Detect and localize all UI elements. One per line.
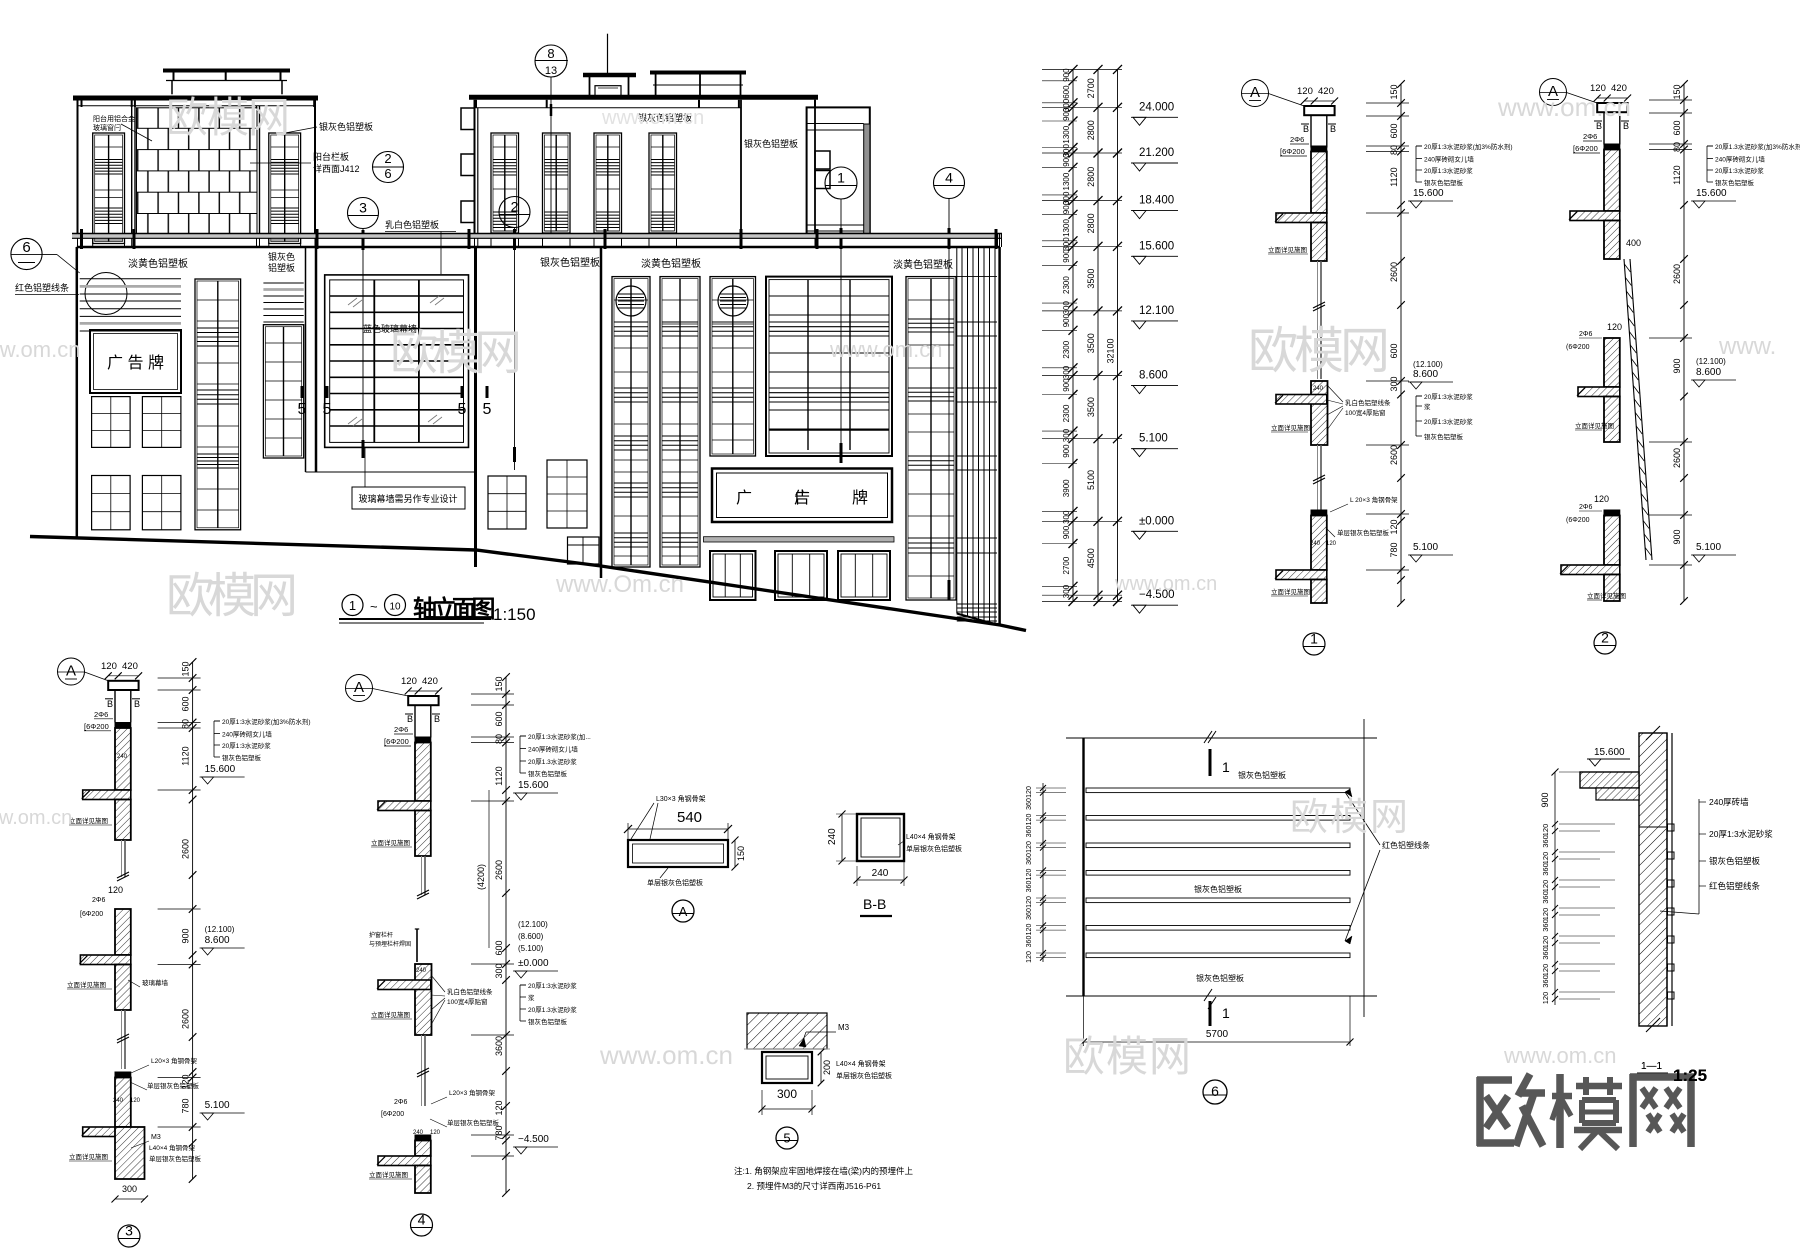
svg-text:1300: 1300 — [1062, 219, 1071, 237]
svg-text:[6Φ200: [6Φ200 — [1280, 147, 1305, 156]
svg-text:120: 120 — [1594, 494, 1609, 504]
svg-text:400: 400 — [1626, 238, 1641, 248]
svg-text:红色铝塑线条: 红色铝塑线条 — [1709, 881, 1761, 891]
svg-text:120: 120 — [430, 1130, 441, 1136]
svg-text:广 告 牌: 广 告 牌 — [107, 354, 164, 372]
svg-text:(6Φ200: (6Φ200 — [1566, 517, 1590, 524]
svg-text:网: 网 — [1149, 1033, 1191, 1080]
svg-text:300: 300 — [1062, 428, 1071, 442]
svg-text:www.: www. — [1718, 333, 1776, 360]
svg-text:120: 120 — [1026, 924, 1033, 936]
svg-text:(5.100): (5.100) — [518, 944, 544, 953]
svg-text:420: 420 — [422, 676, 438, 687]
svg-text:100宽4厚贴窗: 100宽4厚贴窗 — [1345, 408, 1385, 417]
svg-text:2600: 2600 — [181, 1009, 191, 1029]
svg-text:L 20×3 角钢骨架: L 20×3 角钢骨架 — [1350, 495, 1398, 504]
svg-text:立面详见施图: 立面详见施图 — [371, 838, 410, 847]
svg-text:600: 600 — [494, 940, 504, 955]
svg-text:100宽4厚贴窗: 100宽4厚贴窗 — [447, 997, 487, 1006]
svg-text:120: 120 — [1026, 814, 1033, 826]
svg-text:www.om.cn: www.om.cn — [599, 1040, 733, 1070]
svg-text:与预埋栏杆焊固: 与预埋栏杆焊固 — [369, 940, 411, 948]
svg-text:20厚1:3水泥砂浆: 20厚1:3水泥砂浆 — [222, 741, 271, 750]
svg-text:2Φ6: 2Φ6 — [94, 710, 108, 719]
svg-text:单层银灰色铝塑板: 单层银灰色铝塑板 — [1337, 528, 1390, 537]
svg-text:银灰色铝塑板: 银灰色铝塑板 — [222, 753, 262, 762]
svg-text:20厚1.3水泥砂浆(加3%防水剂): 20厚1.3水泥砂浆(加3%防水剂) — [1715, 142, 1800, 151]
svg-text:模: 模 — [208, 570, 256, 623]
svg-text:120: 120 — [1541, 852, 1550, 865]
svg-text:360: 360 — [1541, 975, 1550, 988]
svg-text:模: 模 — [207, 94, 249, 141]
svg-text:−4.500: −4.500 — [518, 1134, 549, 1145]
svg-text:120: 120 — [1026, 896, 1033, 908]
svg-text:www.Om.cn: www.Om.cn — [555, 571, 684, 598]
svg-text:玻璃幕墙: 玻璃幕墙 — [142, 978, 169, 987]
svg-text:(4200): (4200) — [476, 864, 486, 890]
svg-text:[6Φ200: [6Φ200 — [1573, 144, 1598, 153]
svg-text:900: 900 — [1672, 529, 1682, 544]
svg-text:银灰色铝塑板: 银灰色铝塑板 — [528, 769, 568, 778]
svg-text:淡黄色铝塑板: 淡黄色铝塑板 — [641, 257, 701, 270]
svg-text:5: 5 — [458, 401, 467, 418]
svg-text:360: 360 — [1541, 919, 1550, 932]
svg-text:B: B — [1623, 121, 1629, 131]
svg-text:单层银灰色铝塑板: 单层银灰色铝塑板 — [147, 1081, 200, 1090]
svg-text:900: 900 — [1062, 378, 1071, 392]
svg-text:浆: 浆 — [528, 993, 535, 1002]
svg-text:(12.100): (12.100) — [1413, 360, 1443, 369]
svg-text:玻璃窗闩: 玻璃窗闩 — [93, 123, 121, 132]
svg-text:乳白色铝塑线条: 乳白色铝塑线条 — [1345, 398, 1391, 407]
svg-text:5100: 5100 — [1086, 470, 1096, 490]
svg-text:6: 6 — [22, 239, 30, 256]
svg-text:浆: 浆 — [1424, 402, 1431, 411]
svg-text:1: 1 — [1222, 1005, 1230, 1021]
svg-text:B-B: B-B — [863, 896, 886, 912]
svg-text:立面详见施图: 立面详见施图 — [67, 980, 106, 989]
svg-text:2600: 2600 — [1672, 448, 1682, 468]
svg-text:20厚1:3水泥砂浆(加...: 20厚1:3水泥砂浆(加... — [528, 732, 591, 741]
svg-text:(8.600): (8.600) — [518, 932, 544, 941]
svg-text:120: 120 — [108, 885, 123, 895]
svg-text:www.om.cn: www.om.cn — [1503, 1043, 1616, 1068]
svg-text:5.100: 5.100 — [1696, 542, 1721, 553]
svg-text:120: 120 — [1541, 880, 1550, 893]
svg-text:2: 2 — [1601, 630, 1609, 646]
svg-text:银灰色铝塑板: 银灰色铝塑板 — [1424, 178, 1464, 187]
svg-text:护窗栏杆: 护窗栏杆 — [369, 931, 393, 939]
svg-text:网: 网 — [250, 570, 298, 623]
svg-text:(12.100): (12.100) — [205, 925, 235, 934]
svg-text:15.600: 15.600 — [1139, 240, 1174, 252]
svg-text:120: 120 — [1541, 992, 1550, 1005]
svg-text:900: 900 — [1062, 444, 1071, 458]
svg-text:2300: 2300 — [1062, 276, 1071, 294]
svg-text:5700: 5700 — [1206, 1029, 1229, 1040]
svg-text:L20×3 角钢骨架: L20×3 角钢骨架 — [151, 1056, 198, 1065]
svg-text:2600: 2600 — [1672, 264, 1682, 284]
svg-text:www.om.cn: www.om.cn — [1497, 92, 1631, 122]
svg-text:20厚1.3水泥砂浆: 20厚1.3水泥砂浆 — [528, 757, 577, 766]
svg-text:L40×4 角钢骨架: L40×4 角钢骨架 — [906, 832, 956, 841]
svg-text:8.600: 8.600 — [1696, 367, 1721, 378]
svg-text:2300: 2300 — [1062, 404, 1071, 422]
svg-text:~: ~ — [370, 599, 378, 614]
svg-text:5.100: 5.100 — [205, 1100, 230, 1111]
svg-text:1300: 1300 — [1062, 172, 1071, 190]
svg-text:银灰色铝塑板: 银灰色铝塑板 — [540, 256, 600, 269]
svg-text:2: 2 — [511, 199, 519, 215]
svg-text:2600: 2600 — [1389, 445, 1399, 465]
svg-text:5.100: 5.100 — [1139, 433, 1168, 445]
svg-text:银灰色铝塑板: 银灰色铝塑板 — [744, 138, 798, 149]
svg-text:2600: 2600 — [1389, 262, 1399, 282]
svg-text:10: 10 — [389, 602, 401, 613]
svg-text:600: 600 — [494, 711, 504, 726]
svg-text:2700: 2700 — [1086, 78, 1096, 98]
svg-text:网: 网 — [474, 327, 522, 380]
svg-text:3: 3 — [359, 200, 367, 216]
svg-text:www.om.cn: www.om.cn — [0, 337, 80, 362]
svg-text:立面详见施图: 立面详见施图 — [369, 1170, 408, 1179]
svg-text:2600: 2600 — [181, 839, 191, 859]
svg-text:2300: 2300 — [1062, 340, 1071, 358]
svg-text:8.600: 8.600 — [205, 935, 230, 946]
svg-text:900: 900 — [1540, 792, 1550, 807]
svg-text:20厚1.3水泥砂浆: 20厚1.3水泥砂浆 — [528, 1005, 577, 1014]
svg-text:80: 80 — [1389, 145, 1399, 155]
svg-text:2Φ6: 2Φ6 — [1583, 132, 1597, 141]
svg-text:立面详见施图: 立面详见施图 — [1575, 421, 1614, 430]
svg-text:150: 150 — [181, 661, 191, 676]
svg-text:900: 900 — [1062, 153, 1071, 167]
svg-text:网: 网 — [248, 94, 290, 141]
svg-text:2Φ6: 2Φ6 — [1579, 504, 1592, 511]
svg-text:1: 1 — [1222, 759, 1230, 775]
svg-text:420: 420 — [122, 661, 138, 672]
svg-text:2Φ6: 2Φ6 — [394, 1099, 407, 1106]
svg-text:www.om.cn: www.om.cn — [0, 807, 72, 829]
svg-text:1: 1 — [349, 598, 356, 613]
svg-text:150: 150 — [736, 846, 746, 861]
svg-text:4: 4 — [418, 1212, 426, 1228]
svg-text:120: 120 — [494, 1100, 504, 1115]
svg-text:告: 告 — [794, 489, 810, 507]
svg-text:360: 360 — [1026, 936, 1033, 948]
svg-text:立面详见施图: 立面详见施图 — [1271, 423, 1310, 432]
svg-text:1: 1 — [837, 170, 845, 186]
svg-text:120: 120 — [101, 661, 117, 672]
svg-text:2800: 2800 — [1086, 120, 1096, 140]
svg-text:360: 360 — [1541, 863, 1550, 876]
svg-text:780: 780 — [1389, 542, 1399, 557]
svg-text:900: 900 — [1062, 313, 1071, 327]
svg-text:2. 预埋件M3的尺寸详西南J516-P61: 2. 预埋件M3的尺寸详西南J516-P61 — [747, 1181, 881, 1191]
svg-text:8.600: 8.600 — [1139, 370, 1168, 382]
svg-text:B: B — [1596, 121, 1602, 131]
svg-text:3500: 3500 — [1086, 397, 1096, 417]
svg-text:[6Φ200: [6Φ200 — [381, 1111, 404, 1118]
svg-text:120: 120 — [1607, 322, 1622, 332]
svg-text:1120: 1120 — [1389, 167, 1399, 186]
svg-text:淡黄色铝塑板: 淡黄色铝塑板 — [893, 258, 953, 271]
svg-text:360: 360 — [1026, 798, 1033, 810]
svg-text:欧: 欧 — [1063, 1033, 1105, 1080]
svg-text:1: 1 — [1310, 631, 1318, 647]
svg-text:240厚砖砌女儿墙: 240厚砖砌女儿墙 — [1424, 155, 1474, 164]
svg-text:银灰色铝塑板: 银灰色铝塑板 — [1709, 856, 1761, 866]
svg-text:900: 900 — [1062, 107, 1071, 121]
svg-text:2700: 2700 — [1062, 556, 1071, 574]
svg-text:B: B — [107, 699, 113, 709]
svg-text:13: 13 — [545, 65, 557, 77]
svg-text:200: 200 — [822, 1060, 832, 1075]
svg-text:240厚砖墙: 240厚砖墙 — [1709, 797, 1749, 807]
svg-text:900: 900 — [181, 928, 191, 943]
svg-text:240厚砖砌女儿墙: 240厚砖砌女儿墙 — [528, 745, 578, 754]
svg-text:银灰色: 银灰色 — [268, 251, 295, 262]
svg-text:广: 广 — [736, 489, 752, 507]
svg-text:立面详见施图: 立面详见施图 — [69, 1152, 108, 1161]
svg-text:240: 240 — [113, 1098, 124, 1104]
svg-text:150: 150 — [1672, 84, 1682, 99]
svg-text:±0.000: ±0.000 — [1139, 515, 1174, 527]
svg-text:2600: 2600 — [494, 860, 504, 880]
svg-text:360: 360 — [1541, 835, 1550, 848]
svg-text:模: 模 — [432, 327, 480, 380]
svg-text:300: 300 — [777, 1087, 797, 1101]
svg-text:1120: 1120 — [1672, 165, 1682, 184]
svg-text:120: 120 — [1541, 964, 1550, 977]
svg-text:欧: 欧 — [166, 570, 214, 623]
svg-text:银灰色铝塑板: 银灰色铝塑板 — [1196, 973, 1244, 983]
svg-text:20厚1:3水泥砂浆: 20厚1:3水泥砂浆 — [528, 981, 577, 990]
svg-text:360: 360 — [1026, 853, 1033, 865]
svg-text:80: 80 — [181, 719, 191, 729]
svg-text:900: 900 — [1062, 68, 1071, 82]
svg-text:A: A — [354, 679, 364, 696]
svg-text:3500: 3500 — [1086, 269, 1096, 289]
svg-text:立面详见施图: 立面详见施图 — [1271, 587, 1310, 596]
svg-text:240: 240 — [827, 828, 838, 845]
svg-text:6: 6 — [1211, 1083, 1219, 1099]
svg-text:780: 780 — [181, 1098, 191, 1113]
svg-text:牌: 牌 — [852, 489, 868, 507]
svg-text:B: B — [1330, 124, 1336, 134]
svg-text:阳台栏板: 阳台栏板 — [313, 151, 349, 162]
svg-text:120: 120 — [1541, 824, 1550, 837]
svg-text:20厚1:3水泥砂浆: 20厚1:3水泥砂浆 — [1709, 829, 1773, 839]
svg-text:单层银灰色铝塑板: 单层银灰色铝塑板 — [647, 878, 703, 887]
svg-text:15.600: 15.600 — [1413, 188, 1444, 199]
svg-text:600: 600 — [1389, 123, 1399, 138]
svg-text:420: 420 — [1318, 86, 1334, 97]
svg-text:15.600: 15.600 — [205, 764, 236, 775]
svg-text:L40×4 角钢骨架: L40×4 角钢骨架 — [149, 1143, 196, 1152]
svg-text:360: 360 — [1026, 826, 1033, 838]
svg-text:2Φ6: 2Φ6 — [394, 725, 408, 734]
svg-text:L40×4 角钢骨架: L40×4 角钢骨架 — [836, 1059, 886, 1068]
svg-text:B: B — [407, 714, 413, 724]
svg-text:20厚1:3水泥砂浆(加3%防水剂): 20厚1:3水泥砂浆(加3%防水剂) — [222, 717, 311, 726]
svg-text:6: 6 — [384, 166, 391, 181]
svg-text:300: 300 — [1062, 365, 1071, 379]
svg-text:120: 120 — [1326, 541, 1337, 547]
svg-text:A: A — [66, 663, 76, 680]
svg-text:欧: 欧 — [166, 94, 208, 141]
svg-text:立面详见施图: 立面详见施图 — [1587, 591, 1626, 600]
svg-text:详西面J412: 详西面J412 — [313, 163, 360, 174]
svg-text:淡黄色铝塑板: 淡黄色铝塑板 — [128, 257, 188, 270]
svg-text:B: B — [134, 699, 140, 709]
svg-text:2Φ6: 2Φ6 — [1290, 135, 1304, 144]
svg-text:2Φ6: 2Φ6 — [92, 897, 105, 904]
svg-text:5.100: 5.100 — [1413, 542, 1438, 553]
svg-text:120: 120 — [1026, 841, 1033, 853]
svg-text:乳白色铝塑板: 乳白色铝塑板 — [385, 219, 439, 230]
svg-text:单层银灰色铝塑板: 单层银灰色铝塑板 — [447, 1118, 500, 1127]
svg-text:120: 120 — [1389, 519, 1399, 534]
svg-text:4: 4 — [945, 170, 953, 186]
svg-text:模: 模 — [1330, 797, 1368, 839]
svg-text:15.600: 15.600 — [1594, 747, 1625, 758]
svg-text:1300: 1300 — [1062, 125, 1071, 143]
svg-text:单层银灰色铝塑板: 单层银灰色铝塑板 — [836, 1071, 892, 1080]
svg-text:150: 150 — [494, 676, 504, 691]
svg-text:300: 300 — [1062, 510, 1071, 524]
svg-text:立面详见施图: 立面详见施图 — [69, 816, 108, 825]
svg-text:120: 120 — [1541, 908, 1550, 921]
svg-text:(12.100): (12.100) — [518, 920, 548, 929]
svg-text:5: 5 — [298, 401, 307, 418]
svg-text:阳台用铝合金: 阳台用铝合金 — [93, 114, 135, 123]
svg-text:600: 600 — [1062, 85, 1071, 99]
svg-text:5: 5 — [323, 401, 332, 418]
svg-text:L20×3 角钢骨架: L20×3 角钢骨架 — [449, 1088, 496, 1097]
svg-text:www.om.cn: www.om.cn — [829, 337, 942, 362]
svg-text:240厚砖砌女儿墙: 240厚砖砌女儿墙 — [222, 730, 272, 739]
svg-text:120: 120 — [1297, 86, 1313, 97]
svg-text:20厚1:3水泥砂浆: 20厚1:3水泥砂浆 — [1715, 166, 1764, 175]
svg-text:8.600: 8.600 — [1413, 369, 1438, 380]
svg-text:120: 120 — [130, 1098, 141, 1104]
svg-text:240: 240 — [872, 868, 889, 879]
svg-text:单层银灰色铝塑板: 单层银灰色铝塑板 — [906, 844, 962, 853]
svg-text:20厚1:3水泥砂浆(加3%防水剂): 20厚1:3水泥砂浆(加3%防水剂) — [1424, 142, 1513, 151]
svg-text:M3: M3 — [151, 1134, 161, 1141]
svg-text:www.om.cn: www.om.cn — [601, 107, 704, 129]
svg-text:乳白色铝塑线条: 乳白色铝塑线条 — [447, 987, 493, 996]
svg-text:120: 120 — [1026, 869, 1033, 881]
svg-text:300: 300 — [1062, 300, 1071, 314]
svg-text:360: 360 — [1541, 947, 1550, 960]
svg-text:4500: 4500 — [1086, 548, 1096, 568]
svg-text:5: 5 — [483, 401, 492, 418]
svg-text:[6Φ200: [6Φ200 — [84, 722, 109, 731]
svg-text:120: 120 — [1026, 951, 1033, 963]
svg-text:360: 360 — [1026, 881, 1033, 893]
svg-text:欧: 欧 — [390, 327, 438, 380]
svg-text:150: 150 — [1389, 84, 1399, 99]
svg-text:www.om.cn: www.om.cn — [1114, 573, 1217, 595]
svg-text:银灰色铝塑板: 银灰色铝塑板 — [528, 1017, 568, 1026]
svg-text:5: 5 — [783, 1131, 790, 1146]
svg-text:300: 300 — [122, 1184, 137, 1194]
svg-text:3500: 3500 — [1086, 333, 1096, 353]
svg-text:300: 300 — [1389, 376, 1399, 391]
svg-text:模: 模 — [1106, 1033, 1148, 1080]
svg-text:欧: 欧 — [1290, 797, 1328, 839]
svg-text:B: B — [1303, 124, 1309, 134]
svg-text:32100: 32100 — [1106, 338, 1116, 363]
svg-text:120: 120 — [181, 1074, 191, 1089]
svg-text:注:1. 角钢架应牢固地焊接在墙(梁)内的预埋件上: 注:1. 角钢架应牢固地焊接在墙(梁)内的预埋件上 — [734, 1166, 913, 1176]
svg-text:A: A — [1250, 84, 1260, 101]
svg-text:300: 300 — [1062, 584, 1071, 598]
svg-text:80: 80 — [494, 734, 504, 744]
svg-text:20厚1:3水泥砂浆: 20厚1:3水泥砂浆 — [1424, 417, 1473, 426]
svg-text:900: 900 — [1062, 525, 1071, 539]
svg-text:铝塑板: 铝塑板 — [268, 262, 295, 273]
svg-text:银灰色铝塑板: 银灰色铝塑板 — [1424, 432, 1464, 441]
svg-text:15.600: 15.600 — [518, 780, 549, 791]
svg-text:2800: 2800 — [1086, 167, 1096, 187]
svg-text:240: 240 — [117, 754, 128, 760]
svg-text:600: 600 — [1389, 343, 1399, 358]
svg-text:(6Φ200: (6Φ200 — [1566, 344, 1590, 351]
svg-text:欧: 欧 — [1248, 323, 1298, 379]
svg-text:240厚砖砌女儿墙: 240厚砖砌女儿墙 — [1715, 155, 1765, 164]
svg-text:20厚1:3水泥砂浆: 20厚1:3水泥砂浆 — [1424, 392, 1473, 401]
svg-text:网: 网 — [1370, 797, 1408, 839]
svg-text:银灰色铝塑板: 银灰色铝塑板 — [1715, 178, 1755, 187]
svg-text:8: 8 — [547, 46, 554, 61]
svg-text:M3: M3 — [838, 1023, 850, 1032]
svg-text:B: B — [434, 714, 440, 724]
svg-text:80: 80 — [1672, 142, 1682, 152]
svg-text:3900: 3900 — [1062, 479, 1071, 497]
svg-text:[6Φ200: [6Φ200 — [384, 737, 409, 746]
svg-text:2Φ6: 2Φ6 — [1579, 331, 1592, 338]
svg-text:240: 240 — [413, 1130, 424, 1136]
svg-text:900: 900 — [1062, 249, 1071, 263]
svg-text:15.600: 15.600 — [1696, 188, 1727, 199]
svg-text:玻璃幕墙需另作专业设计: 玻璃幕墙需另作专业设计 — [358, 493, 457, 504]
svg-text:300: 300 — [1062, 237, 1071, 251]
svg-text:1—1: 1—1 — [1641, 1061, 1663, 1072]
svg-text:18.400: 18.400 — [1139, 195, 1174, 207]
svg-text:360: 360 — [1026, 908, 1033, 920]
svg-text:900: 900 — [1672, 358, 1682, 373]
svg-text:3: 3 — [125, 1223, 133, 1239]
svg-text:单层银灰色铝塑板: 单层银灰色铝塑板 — [149, 1154, 202, 1163]
svg-text:1120: 1120 — [181, 746, 191, 765]
svg-text:21.200: 21.200 — [1139, 147, 1174, 159]
svg-text:网: 网 — [1340, 323, 1390, 379]
svg-text:300: 300 — [494, 963, 504, 978]
svg-text:[6Φ200: [6Φ200 — [80, 911, 103, 918]
svg-text:12.100: 12.100 — [1139, 305, 1174, 317]
svg-text:模: 模 — [1294, 323, 1344, 379]
svg-text:红色铝塑线条: 红色铝塑线条 — [1382, 840, 1430, 850]
svg-text:780: 780 — [494, 1125, 504, 1140]
svg-text:L30×3 角钢骨架: L30×3 角钢骨架 — [656, 794, 706, 803]
svg-text:3600: 3600 — [494, 1036, 504, 1056]
svg-text:红色铝塑线条: 红色铝塑线条 — [15, 282, 69, 293]
svg-text:A: A — [679, 904, 688, 919]
svg-text:银灰色铝塑板: 银灰色铝塑板 — [1238, 770, 1286, 780]
